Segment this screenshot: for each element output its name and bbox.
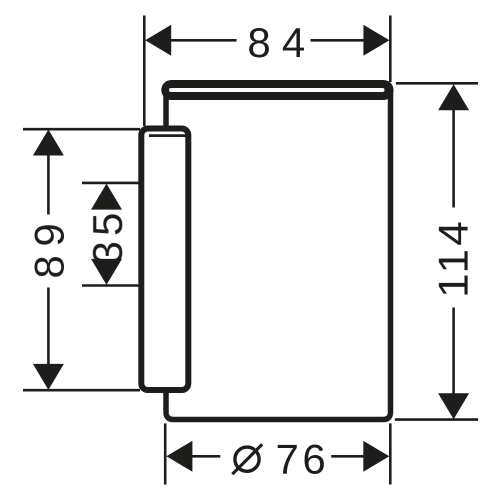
dimension 89 bottom arrowhead xyxy=(33,364,64,390)
top rim band (dark capsule) xyxy=(161,80,393,100)
svg-text:84: 84 xyxy=(247,19,316,66)
dimension 89 top extension line xyxy=(23,128,140,131)
svg-text:114: 114 xyxy=(431,218,478,298)
dimension diameter 76 line right segment xyxy=(331,455,364,458)
top rim band white stripe xyxy=(169,88,385,92)
dimension 84 left arrowhead xyxy=(145,25,171,56)
dimension 35 top extension line xyxy=(82,182,140,185)
svg-text:76: 76 xyxy=(275,436,329,483)
dimension 114 top arrowhead xyxy=(438,84,469,110)
dimension 89 line bottom segment xyxy=(47,288,50,369)
svg-text:89: 89 xyxy=(26,215,73,279)
dimension 114 line bottom segment xyxy=(452,308,455,394)
dimension diameter 76 right arrowhead xyxy=(363,441,389,472)
dimension 84 left extension line xyxy=(143,16,146,127)
dimension diameter 76 label xyxy=(235,447,259,471)
dimension 84 right arrowhead xyxy=(363,25,389,56)
dimension diameter 76 slash of diameter symbol xyxy=(232,444,262,474)
wall plate top inner line xyxy=(149,134,186,137)
dimension 89 line top segment xyxy=(47,150,50,215)
dimension diameter 76 left arrowhead xyxy=(166,441,192,472)
dimension diameter 76 line left segment xyxy=(191,455,220,458)
svg-text:35: 35 xyxy=(84,207,131,264)
dimension 114 bottom extension line xyxy=(395,418,478,421)
dimension 35 bottom arrowhead xyxy=(91,259,122,285)
dimension 35 top arrowhead xyxy=(91,184,122,210)
wall plate xyxy=(141,129,188,391)
dimension 35 bottom extension line xyxy=(82,284,140,287)
dimension diameter 76 right extension line xyxy=(389,423,392,484)
dimension diameter 76 left extension line xyxy=(164,423,167,484)
dimension 114 top extension line xyxy=(396,82,478,85)
dimension 114 bottom arrowhead xyxy=(438,393,469,419)
dimension 89 top arrowhead xyxy=(33,130,64,156)
dimension 114 line top segment xyxy=(452,110,455,208)
tumbler body outline xyxy=(166,90,391,420)
dimension 84 line left segment xyxy=(169,39,237,42)
dimension 84 line right segment xyxy=(311,39,366,42)
dimension 84 right extension line xyxy=(389,16,392,83)
dimension 89 bottom extension line xyxy=(23,389,140,392)
